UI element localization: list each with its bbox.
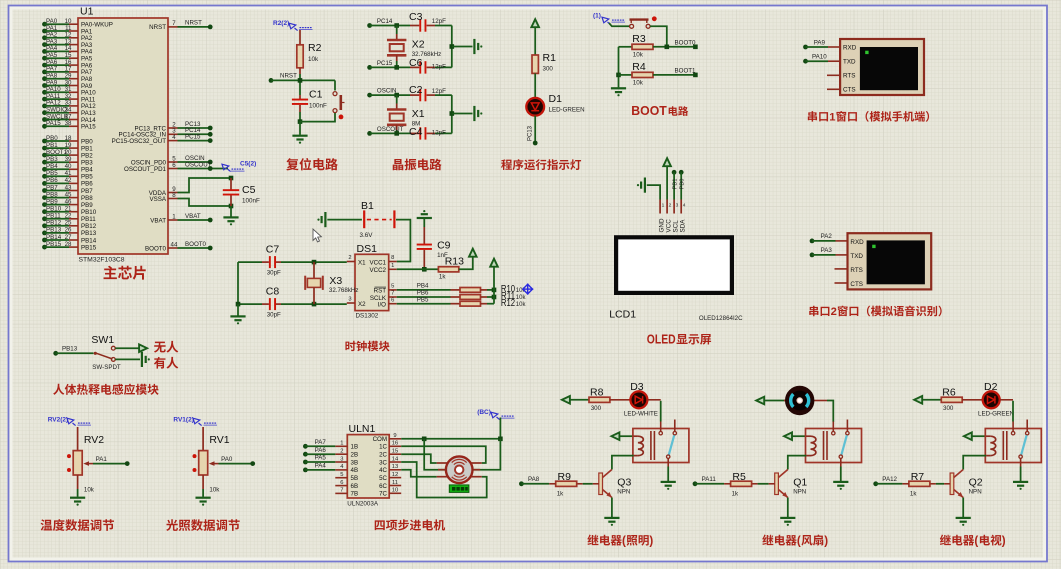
- OLED display LCD1: [616, 237, 732, 293]
- label 光照数据调节: [166, 519, 240, 531]
- svg-text:PB5: PB5: [46, 170, 58, 177]
- svg-text:C4: C4: [409, 126, 423, 138]
- wire R3 R4 left rail: [616, 47, 621, 88]
- svg-text:PB6: PB6: [81, 181, 93, 188]
- wire net PB8 to U1 pin 45: [42, 191, 93, 202]
- svg-text:C9: C9: [437, 240, 451, 252]
- svg-text:32.768kHz: 32.768kHz: [329, 287, 359, 294]
- potentiometer RV2: [67, 427, 104, 494]
- wire net PA10 to U1 pin 31: [42, 86, 96, 97]
- svg-text:PB8: PB8: [81, 195, 93, 202]
- label U1: [80, 6, 94, 18]
- label 复位电路: [286, 158, 338, 170]
- svg-text:C8: C8: [266, 286, 280, 298]
- wire net PA5: [303, 455, 335, 465]
- power terminal D2 LED row: [914, 396, 941, 404]
- svg-text:10k: 10k: [516, 295, 527, 301]
- power terminal OLED VCC: [663, 158, 671, 199]
- mouse cursor: [313, 229, 321, 242]
- push button reset: [300, 80, 345, 121]
- svg-text:PB13: PB13: [62, 346, 78, 353]
- ULN1 pin 1 1B: [335, 441, 358, 451]
- svg-text:BOOT: BOOT: [631, 103, 667, 118]
- value label OLED12864I2C: [699, 315, 743, 322]
- wire net PA9: [803, 39, 840, 49]
- ULN1 pin 5 5B: [335, 472, 358, 482]
- wire net PB6 to U1 pin 42: [42, 177, 93, 188]
- wire net PA4: [303, 463, 335, 473]
- svg-text:15: 15: [392, 449, 398, 455]
- svg-text:6B: 6B: [351, 483, 359, 490]
- push button BOOT: [609, 16, 657, 28]
- svg-text:7C: 7C: [379, 491, 387, 498]
- LED D1: [526, 93, 584, 116]
- power terminal coil K3: [964, 432, 987, 440]
- wire net OSCIN U1 pin 5: [131, 155, 213, 167]
- svg-text:LCD1: LCD1: [609, 309, 636, 321]
- svg-text:PB7: PB7: [81, 188, 93, 195]
- ground SW1 lower: [115, 352, 150, 367]
- power terminal right of R13: [459, 249, 477, 270]
- wire 2C to motor: [401, 454, 437, 463]
- capacitor C7: [238, 244, 347, 277]
- wire net SWCLK to U1 pin 37: [42, 113, 96, 124]
- svg-text:ULN1: ULN1: [349, 423, 376, 435]
- wire net VBAT U1 pin 1: [150, 213, 212, 225]
- svg-text:SW1: SW1: [91, 334, 114, 346]
- svg-text:DS1: DS1: [357, 243, 378, 255]
- svg-text:PA2: PA2: [821, 233, 833, 240]
- svg-text:OSCIN: OSCIN: [377, 88, 397, 95]
- svg-text:C2: C2: [409, 84, 423, 96]
- ground emitter Q3: [604, 498, 619, 526]
- svg-text:PB0: PB0: [46, 135, 58, 142]
- capacitor C9: [417, 227, 451, 272]
- svg-text:PB1: PB1: [46, 142, 58, 149]
- ULN1 pin 10 7C: [379, 488, 401, 498]
- svg-text:4: 4: [172, 134, 176, 141]
- svg-text:6: 6: [391, 297, 394, 303]
- wire net PB1 to U1 pin 19: [42, 142, 93, 153]
- svg-text:1k: 1k: [557, 490, 564, 497]
- svg-text:OSCOUT: OSCOUT: [185, 161, 212, 168]
- ground below C5: [223, 206, 238, 225]
- wire net PA8 to U1 pin 29: [42, 73, 93, 84]
- wire cursor to R2: [299, 30, 301, 45]
- svg-text:300: 300: [943, 405, 954, 412]
- wire net PB5 to U1 pin 41: [42, 170, 93, 181]
- wire net NRST U1 pin 7: [149, 20, 212, 32]
- ground relay K3: [1013, 467, 1028, 490]
- svg-text:VBAT: VBAT: [185, 213, 201, 220]
- wire net PA0: [219, 456, 256, 466]
- svg-text:R9: R9: [558, 471, 572, 483]
- ground RV2: [70, 475, 85, 506]
- wire net PA8: [519, 476, 556, 486]
- svg-text:STM32F103C8: STM32F103C8: [79, 257, 125, 264]
- wire net PB0 SDA: [679, 170, 686, 200]
- ground relay K2: [833, 467, 848, 490]
- svg-text:DS1302: DS1302: [356, 313, 379, 320]
- svg-text:1: 1: [391, 263, 394, 269]
- svg-text:PB12: PB12: [81, 223, 97, 230]
- power terminal FAN LED row: [756, 397, 786, 405]
- resistor R8 D3: [589, 386, 610, 412]
- svg-text:NPN: NPN: [969, 489, 982, 496]
- wire net PA3 to U1 pin 13: [42, 38, 93, 49]
- svg-text:SCL: SCL: [672, 220, 679, 233]
- DS1 pin VCC2: [369, 263, 396, 274]
- wire net OSCIN crystal top: [367, 88, 452, 102]
- wire U1 VSSA pin 8 to C5: [149, 192, 233, 209]
- label OLED显示屏: [647, 333, 711, 347]
- svg-text:41: 41: [65, 170, 72, 177]
- label 四项步进电机: [375, 519, 445, 530]
- crystal X1: [387, 95, 425, 133]
- svg-text:3: 3: [676, 203, 679, 209]
- terminal 2 screen: [867, 240, 925, 284]
- svg-text:VCC2: VCC2: [369, 267, 386, 274]
- wire net OSCOUT U1 pin 6: [124, 161, 228, 173]
- svg-text:PA10: PA10: [812, 54, 827, 61]
- svg-text:7: 7: [172, 20, 176, 27]
- DS1 pin I/O: [378, 297, 397, 308]
- svg-text:10k: 10k: [633, 52, 644, 59]
- wire right side X2 caps: [450, 26, 473, 68]
- ground relay K1: [661, 467, 676, 490]
- wire net PB0 to U1 pin 18: [42, 135, 93, 146]
- ULN1 pin 6 6B: [335, 480, 358, 490]
- wire net PB4 to U1 pin 40: [42, 163, 93, 174]
- wire net BOOT1: [653, 67, 698, 77]
- capacitor C8: [238, 286, 347, 319]
- wire net PB6 SCLK: [397, 290, 451, 297]
- fan motor FAN: [784, 388, 827, 413]
- svg-text:PA1: PA1: [96, 456, 108, 463]
- svg-text:12pF: 12pF: [432, 64, 446, 71]
- svg-text:PA9: PA9: [814, 39, 826, 46]
- svg-text:TXD: TXD: [843, 59, 856, 66]
- svg-text:NRST: NRST: [185, 20, 202, 27]
- ground emitter Q1: [780, 498, 795, 526]
- svg-text:X1: X1: [412, 108, 425, 120]
- ULN1 pin 9 COM: [373, 433, 402, 443]
- chip DS1 body: [355, 243, 389, 320]
- svg-text:R8: R8: [590, 386, 604, 398]
- terminal 1 screen: [860, 47, 918, 90]
- svg-text:1: 1: [829, 112, 835, 124]
- label 继电器(照明): [587, 535, 653, 548]
- DS1 pin SCLK: [370, 291, 397, 302]
- svg-text:30pF: 30pF: [267, 312, 281, 319]
- svg-text:10k: 10k: [516, 302, 527, 308]
- svg-text:(BC): (BC): [477, 409, 491, 416]
- svg-text:OSCOUT: OSCOUT: [377, 126, 404, 133]
- wire net PA0 to U1 pin 10: [42, 18, 113, 29]
- svg-text:28: 28: [65, 241, 72, 248]
- svg-text:PB3: PB3: [81, 160, 93, 167]
- svg-text:6: 6: [340, 480, 343, 486]
- resistor R10: [451, 283, 527, 295]
- svg-text:C5: C5: [242, 184, 256, 196]
- wire fan to relay FAN: [827, 401, 833, 423]
- svg-text:Q3: Q3: [617, 477, 631, 489]
- ground BOOT circuit: [611, 88, 626, 96]
- wire net PB7 to U1 pin 43: [42, 184, 93, 195]
- LED D3: [610, 391, 648, 408]
- svg-text:3: 3: [348, 297, 351, 303]
- label D3: [624, 381, 658, 418]
- DS1 pin RST: [374, 284, 397, 295]
- svg-text:R1: R1: [543, 52, 557, 64]
- label 继电器(风扇): [762, 535, 828, 548]
- svg-text:I/O: I/O: [378, 302, 386, 309]
- svg-text:1: 1: [340, 441, 343, 447]
- svg-text:NRST: NRST: [149, 24, 166, 31]
- svg-text:43: 43: [65, 184, 72, 191]
- ULN1 pin 12 5C: [379, 472, 401, 482]
- resistor R9: [556, 471, 599, 497]
- ULN1 pin 2 2B: [335, 449, 358, 459]
- battery B1: [360, 200, 395, 239]
- svg-text:ULN2003A: ULN2003A: [347, 501, 379, 508]
- svg-text:OLED12864I2C: OLED12864I2C: [699, 315, 743, 322]
- transistor Q2: [950, 470, 983, 498]
- ULN1 pin 3 3B: [335, 456, 358, 466]
- svg-text:300: 300: [591, 405, 602, 412]
- svg-text:4B: 4B: [351, 467, 359, 474]
- svg-text:300: 300: [543, 66, 554, 73]
- svg-text:PB14: PB14: [81, 237, 97, 244]
- relay K3: [985, 420, 1041, 467]
- svg-text:C5(2): C5(2): [240, 161, 256, 168]
- wire net BOOT0: [653, 39, 698, 49]
- svg-text:NPN: NPN: [617, 489, 630, 496]
- wire net PA6 to U1 pin 16: [42, 59, 93, 70]
- svg-text:(1): (1): [593, 13, 601, 20]
- resistor R3: [619, 33, 654, 59]
- wire net PB5 I/O: [397, 296, 451, 303]
- svg-text:RTS: RTS: [843, 73, 855, 80]
- wire net PC13 below D1: [528, 116, 538, 146]
- wire net PA12: [873, 476, 909, 486]
- wire C7 C8 left rail: [236, 262, 241, 315]
- blue wire-label cursor (1): [593, 13, 625, 25]
- svg-text:LED-WHITE: LED-WHITE: [624, 411, 658, 418]
- capacitor C1: [292, 89, 327, 113]
- svg-text:SW-SPDT: SW-SPDT: [92, 364, 121, 371]
- svg-text:PA6: PA6: [315, 447, 327, 454]
- svg-text:PA15: PA15: [46, 120, 61, 127]
- svg-text:RTS: RTS: [850, 267, 862, 274]
- svg-text:D2: D2: [984, 381, 998, 393]
- svg-text:RV1: RV1: [209, 434, 229, 446]
- wire COM right tap to motor: [473, 439, 501, 470]
- svg-text:PA7: PA7: [315, 439, 327, 446]
- ULN1 pin 7 7B: [335, 488, 358, 498]
- wire net PA11 to U1 pin 32: [42, 93, 96, 104]
- wire net PC14 crystal top: [367, 18, 452, 32]
- svg-text:): ): [1002, 535, 1006, 548]
- svg-text:RV2(2): RV2(2): [48, 417, 68, 424]
- wire 4C to motor: [401, 470, 437, 477]
- wire R1 to D1: [534, 73, 536, 97]
- ground emitter Q2: [956, 498, 971, 526]
- svg-text:PA12: PA12: [882, 476, 897, 483]
- wire net BOOT0 U1 pin 44: [145, 241, 213, 253]
- svg-text:X1: X1: [358, 259, 366, 266]
- svg-text:PB1: PB1: [81, 145, 93, 152]
- svg-text:12pF: 12pF: [432, 130, 446, 137]
- svg-text:C3: C3: [409, 11, 423, 23]
- ground left of B1: [317, 212, 362, 227]
- wire net PA2 to U1 pin 12: [42, 32, 93, 43]
- wire coil to collector K1: [612, 456, 634, 470]
- svg-text:PB15: PB15: [81, 244, 97, 251]
- svg-text:PB6: PB6: [46, 177, 58, 184]
- label 有人: [154, 357, 178, 369]
- wire net PA12 to U1 pin 33: [42, 100, 96, 111]
- svg-text:38: 38: [65, 120, 72, 127]
- wire net BOOT1 to U1 pin 20: [42, 149, 93, 160]
- svg-text:BOOT0: BOOT0: [675, 39, 697, 46]
- svg-text:R5: R5: [732, 471, 746, 483]
- wire net PC14 U1 pin 3: [119, 127, 213, 139]
- blue wire-label cursor C5(2): [222, 161, 256, 172]
- crystal X2: [387, 26, 441, 68]
- svg-text:21: 21: [65, 206, 72, 213]
- capacitor C3: [409, 11, 446, 25]
- svg-text:PB0: PB0: [81, 138, 93, 145]
- svg-text:): ): [824, 535, 828, 548]
- svg-text:PC15: PC15: [377, 60, 393, 67]
- svg-text:13: 13: [392, 464, 398, 470]
- svg-text:VBAT: VBAT: [150, 217, 166, 224]
- ULN1 pin 13 4C: [379, 464, 401, 474]
- ground right of X2: [474, 39, 482, 54]
- svg-text:1k: 1k: [439, 274, 446, 281]
- svg-text:22: 22: [65, 213, 72, 220]
- svg-text:5B: 5B: [351, 475, 359, 482]
- svg-text:39: 39: [65, 156, 72, 163]
- svg-text:R7: R7: [911, 471, 925, 483]
- svg-text:45: 45: [65, 191, 72, 198]
- svg-text:PB5: PB5: [417, 296, 429, 303]
- wire net PA9 to U1 pin 30: [42, 79, 93, 90]
- svg-text:100nF: 100nF: [242, 198, 260, 205]
- svg-text:PA3: PA3: [821, 247, 833, 254]
- svg-text:12: 12: [392, 472, 398, 478]
- svg-text:25: 25: [65, 220, 72, 227]
- svg-text:2: 2: [669, 203, 672, 209]
- transistor Q1: [775, 470, 808, 498]
- svg-text:RXD: RXD: [843, 45, 857, 52]
- capacitor C6: [409, 57, 446, 71]
- svg-text:16: 16: [392, 441, 398, 447]
- capacitor C4: [409, 126, 446, 138]
- svg-text:3.6V: 3.6V: [360, 232, 374, 239]
- blue origin marker: [522, 284, 533, 295]
- wire 1C to motor: [401, 446, 486, 463]
- svg-text:PC13: PC13: [528, 125, 534, 141]
- svg-text:COM: COM: [373, 436, 387, 443]
- svg-text:18: 18: [65, 135, 72, 142]
- svg-text:RV2: RV2: [84, 434, 104, 446]
- stepper position display: [449, 485, 469, 493]
- svg-text:PA5: PA5: [315, 455, 327, 462]
- svg-text:PB14: PB14: [46, 234, 62, 241]
- svg-text:4C: 4C: [379, 467, 387, 474]
- svg-text:44: 44: [171, 241, 178, 248]
- capacitor C5: [223, 178, 260, 206]
- svg-text:10k: 10k: [633, 80, 644, 87]
- svg-text:30pF: 30pF: [267, 270, 281, 277]
- svg-text:PC15: PC15: [185, 133, 201, 140]
- svg-text:CTS: CTS: [843, 87, 856, 94]
- wire net PB15 to U1 pin 28: [42, 241, 97, 252]
- svg-text:PA15: PA15: [81, 124, 96, 131]
- wire net PA15 to U1 pin 38: [42, 120, 96, 131]
- wire net PA11: [693, 476, 731, 486]
- svg-text:BOOT0: BOOT0: [185, 241, 207, 248]
- svg-text:7: 7: [340, 488, 343, 494]
- DS1 pin X1: [347, 255, 366, 266]
- blue wire-label cursor RV1(2): [173, 417, 217, 426]
- svg-text:1k: 1k: [732, 490, 739, 497]
- motor MOTOR-ST stepper: [437, 456, 482, 483]
- svg-text:NRST: NRST: [280, 73, 297, 80]
- svg-text:3: 3: [340, 456, 343, 462]
- resistor R6 D2: [941, 386, 962, 412]
- svg-text:R13: R13: [445, 256, 464, 268]
- blue wire-label cursor R2(2): [273, 20, 313, 31]
- svg-text:1B: 1B: [351, 444, 359, 451]
- svg-text:1k: 1k: [910, 490, 917, 497]
- wire net PA3: [810, 247, 848, 257]
- svg-text:TXD: TXD: [850, 253, 863, 260]
- svg-text:6: 6: [172, 162, 176, 169]
- svg-text:3C: 3C: [379, 459, 387, 466]
- ULN1 pin 16 1C: [379, 441, 401, 451]
- wire 3C to motor: [401, 462, 487, 498]
- ground left of OLED pins: [637, 178, 660, 200]
- svg-text:PC14: PC14: [377, 18, 393, 25]
- svg-text:PA4: PA4: [315, 463, 327, 470]
- ground RV1: [196, 475, 211, 506]
- svg-text:C1: C1: [309, 89, 323, 101]
- svg-text:27: 27: [65, 234, 72, 241]
- svg-text:): ): [649, 535, 653, 548]
- svg-text:B1: B1: [361, 200, 374, 212]
- svg-text:D1: D1: [549, 93, 563, 105]
- wire COM left tap to motor: [424, 439, 446, 470]
- wire net PB13 to U1 pin 26: [42, 227, 97, 238]
- svg-text:2: 2: [348, 255, 351, 261]
- svg-text:LED-GREEN: LED-GREEN: [549, 107, 585, 114]
- label 串口1窗口（模拟手机端）: [808, 111, 929, 124]
- svg-text:PB2: PB2: [81, 152, 93, 159]
- svg-text:5: 5: [340, 472, 343, 478]
- potentiometer RV1: [193, 427, 230, 494]
- wire C1 to ground node: [298, 112, 303, 124]
- svg-text:VCC: VCC: [665, 219, 672, 233]
- label 晶振电路: [393, 159, 442, 171]
- svg-text:X2: X2: [358, 301, 366, 308]
- svg-text:OLED: OLED: [647, 333, 676, 347]
- svg-text:PB0: PB0: [680, 179, 686, 190]
- svg-text:VSSA: VSSA: [149, 196, 166, 203]
- wire COM rail: [401, 418, 503, 442]
